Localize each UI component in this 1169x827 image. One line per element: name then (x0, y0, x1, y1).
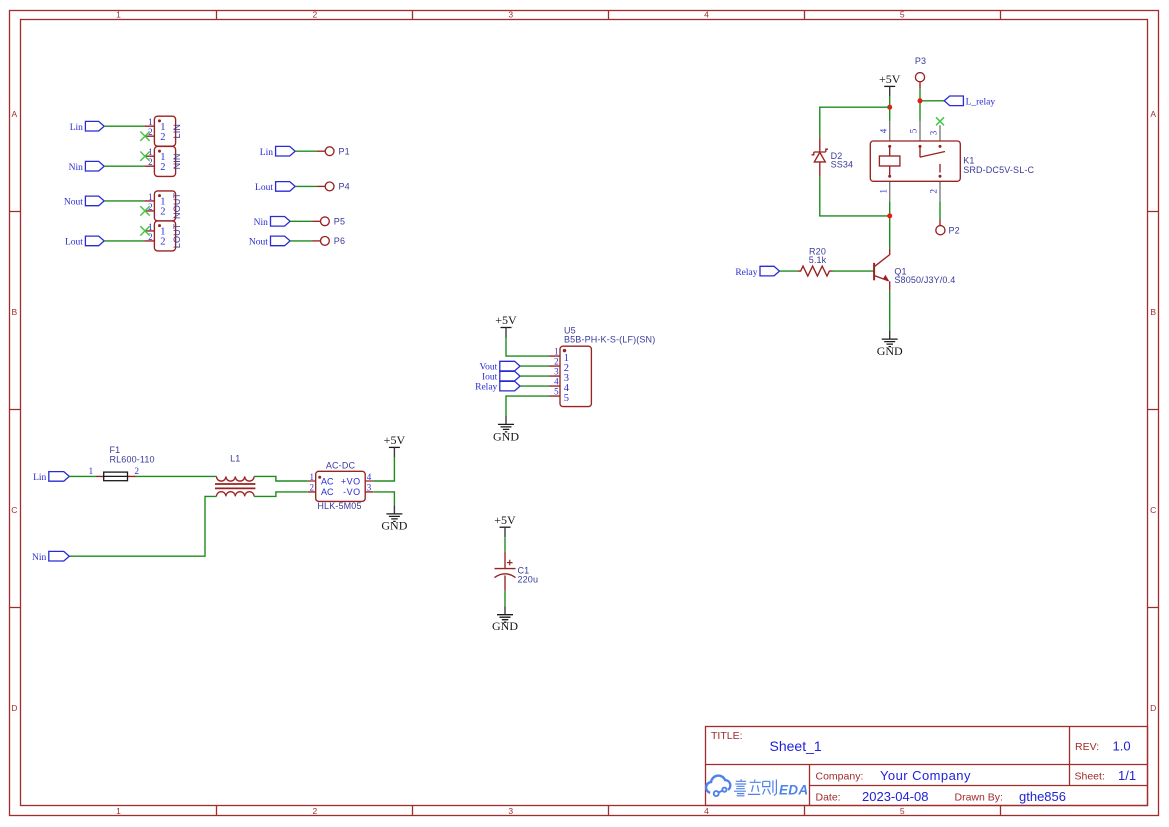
wire L1 bottom to AC pin2 (254, 492, 308, 497)
svg-text:1: 1 (148, 192, 153, 202)
svg-text:4: 4 (367, 472, 372, 482)
svg-text:GND: GND (381, 518, 407, 532)
net flag Lin (70, 121, 105, 132)
svg-text:Iout: Iout (482, 373, 498, 383)
svg-text:GND: GND (493, 429, 519, 443)
AC-DC module U HLK-5M05 (308, 461, 374, 512)
svg-text:2: 2 (134, 466, 139, 476)
svg-text:+5V: +5V (495, 313, 517, 327)
wire -VO to GND (373, 492, 394, 506)
svg-text:Relay: Relay (475, 383, 497, 393)
svg-text:2: 2 (148, 232, 153, 242)
svg-text:5: 5 (909, 128, 919, 133)
wire C1 to GND (504, 591, 506, 606)
connector LOUT (144, 221, 182, 251)
svg-text:4: 4 (704, 9, 709, 19)
pin P1 (317, 146, 350, 156)
svg-text:Nout: Nout (64, 198, 83, 208)
svg-text:5: 5 (900, 806, 905, 816)
inductor L1 (common mode choke) (215, 454, 255, 497)
ground GND (Q1) (877, 331, 903, 358)
junction on +5V net (887, 105, 892, 110)
svg-text:S8050/J3Y/0.4: S8050/J3Y/0.4 (894, 275, 955, 285)
wire node to L_relay (920, 100, 944, 102)
junction collector node (887, 213, 892, 218)
net flag Nin (AC input) (32, 551, 69, 563)
ground GND (U5) (493, 416, 519, 443)
svg-text:1: 1 (310, 472, 315, 482)
svg-text:HLK-5M05: HLK-5M05 (317, 501, 361, 511)
net flag Iout (482, 371, 520, 382)
wire K1 pin1 to Q1 collector (889, 201, 891, 248)
svg-text:AC-DC: AC-DC (326, 461, 356, 471)
svg-text:4: 4 (554, 377, 559, 387)
svg-text:L1: L1 (230, 454, 240, 464)
svg-text:3: 3 (508, 9, 513, 19)
svg-text:Nin: Nin (69, 163, 84, 173)
net flag Nin (69, 161, 105, 172)
pin P5 (312, 217, 345, 227)
svg-text:P5: P5 (334, 217, 345, 227)
svg-text:2: 2 (313, 9, 318, 19)
svg-text:gthe856: gthe856 (1019, 789, 1066, 804)
wire +5V down to pin4 (889, 96, 891, 121)
wire K1 pin2 to P2 (939, 201, 941, 219)
svg-text:+5V: +5V (879, 72, 901, 86)
svg-text:B5B-PH-K-S-(LF)(SN): B5B-PH-K-S-(LF)(SN) (564, 335, 655, 345)
svg-text:5: 5 (554, 387, 559, 397)
wire Lin to F1 (69, 475, 95, 477)
svg-text:Sheet_1: Sheet_1 (770, 738, 822, 754)
svg-text:1/1: 1/1 (1118, 768, 1136, 783)
svg-text:Your Company: Your Company (880, 768, 971, 783)
svg-text:TITLE:: TITLE: (711, 730, 743, 742)
svg-text:2: 2 (310, 483, 315, 493)
no-connect X on NOUT pin2 (140, 206, 149, 215)
wire Q1 emitter to GND (889, 291, 891, 331)
svg-text:2023-04-08: 2023-04-08 (862, 789, 929, 804)
relay K1 (870, 121, 1034, 201)
diode D2 (812, 137, 854, 176)
svg-text:REV:: REV: (1075, 741, 1099, 753)
svg-text:2: 2 (148, 157, 153, 167)
wire +VO to +5V (373, 457, 394, 481)
wire pin5 to GND (506, 396, 549, 416)
pin P3 (915, 56, 926, 88)
svg-text:Company:: Company: (816, 771, 864, 783)
wire F1 to L1 (136, 475, 217, 477)
svg-text:4: 4 (878, 128, 888, 133)
svg-text:Nout: Nout (249, 238, 268, 248)
connector LIN (144, 116, 182, 146)
wire Nout to P6 (290, 240, 312, 242)
pin P6 (312, 236, 345, 246)
pin P2 (936, 220, 960, 236)
wire +5V to D2 top (820, 107, 890, 137)
svg-text:2: 2 (554, 357, 559, 367)
svg-text:Lin: Lin (70, 123, 83, 133)
svg-text:Lout: Lout (65, 238, 83, 248)
svg-text:P6: P6 (334, 236, 345, 246)
svg-text:2: 2 (313, 806, 318, 816)
wire +5V to C1 (504, 537, 506, 552)
svg-text:4: 4 (704, 806, 709, 816)
net flag Lout (65, 236, 104, 247)
connector NOUT (144, 191, 182, 221)
svg-text:3: 3 (508, 806, 513, 816)
wire Nin to NIN pin2 (104, 165, 144, 167)
svg-text:SRD-DC5V-SL-C: SRD-DC5V-SL-C (963, 165, 1034, 175)
svg-text:SS34: SS34 (831, 160, 854, 170)
no-connect X on K1 pin3 (936, 117, 944, 125)
wire Vout to pin2 (520, 365, 549, 367)
svg-text:Drawn By:: Drawn By: (955, 792, 1003, 804)
svg-text:D: D (11, 703, 17, 713)
wire Relay to pin4 (520, 385, 549, 387)
svg-text:B: B (11, 307, 17, 317)
svg-text:1: 1 (116, 9, 121, 19)
svg-text:3: 3 (367, 483, 372, 493)
svg-text:P3: P3 (915, 56, 926, 66)
svg-text:AC: AC (321, 487, 334, 497)
ground GND (C1) (492, 606, 518, 633)
no-connect X on LIN pin2 (140, 132, 149, 141)
svg-text:2: 2 (160, 132, 165, 143)
net flag Lin (AC input) (33, 472, 69, 484)
svg-text:P1: P1 (339, 146, 350, 156)
junction on P3 net (918, 98, 923, 103)
svg-text:5: 5 (900, 9, 905, 19)
wire Lout to LOUT pin2 (104, 240, 144, 242)
svg-text:LOUT: LOUT (172, 223, 182, 248)
svg-text:5.1k: 5.1k (809, 255, 827, 265)
net flag Lin (P1 row) (260, 146, 295, 157)
svg-text:5: 5 (564, 393, 569, 404)
net flag Nin (P5 row) (254, 217, 290, 228)
svg-text:2: 2 (160, 207, 165, 218)
svg-text:P4: P4 (339, 182, 350, 192)
svg-text:Lout: Lout (255, 183, 273, 193)
net flag Nout (P6 row) (249, 236, 290, 247)
wire Lout to P4 (295, 185, 317, 187)
svg-text:3: 3 (554, 367, 559, 377)
connector U5 (549, 326, 655, 407)
power flag +5V (AC-DC) (384, 433, 406, 457)
wire L1 top to AC pin1 (254, 476, 308, 481)
no-connect X on NIN pin1 (140, 152, 149, 161)
svg-text:1: 1 (89, 466, 94, 476)
svg-text:220u: 220u (518, 575, 539, 585)
wire Nin to P5 (290, 220, 312, 222)
svg-text:Lin: Lin (33, 473, 46, 483)
svg-text:1: 1 (878, 189, 888, 194)
svg-text:EDA: EDA (779, 783, 808, 798)
svg-text:2: 2 (160, 162, 165, 173)
power flag +5V (relay) (879, 72, 901, 97)
title block (706, 727, 1148, 806)
power flag +5V (U5) (495, 313, 517, 337)
connector NIN (144, 146, 182, 176)
svg-text:-VO: -VO (343, 487, 361, 497)
svg-text:1: 1 (554, 347, 559, 357)
svg-text:2: 2 (929, 189, 939, 194)
svg-text:RL600-110: RL600-110 (110, 454, 155, 464)
wire Nin to L1 bottom (69, 496, 216, 556)
wire Nout to NOUT pin1 (104, 200, 144, 202)
wire Lin to P1 (295, 150, 317, 152)
wire P3 down to pin5 (919, 88, 921, 121)
svg-text:Nin: Nin (32, 553, 47, 563)
wire Lin to LIN pin1 (104, 125, 144, 127)
net flag Relay (Q1 base) (735, 266, 779, 278)
svg-text:+VO: +VO (341, 476, 361, 486)
net flag L_relay (944, 96, 995, 107)
svg-text:Sheet:: Sheet: (1075, 771, 1105, 783)
svg-text:NIN: NIN (172, 153, 182, 169)
svg-text:Nin: Nin (254, 218, 269, 228)
transistor Q1 (874, 249, 955, 291)
capacitor C1 (495, 552, 539, 591)
logo JLCEDA (706, 776, 808, 798)
wire R20 to Q1 base (832, 270, 874, 272)
svg-text:Lin: Lin (260, 148, 273, 158)
wire +5V to U5 pin1 (506, 338, 549, 357)
svg-text:LIN: LIN (172, 124, 182, 138)
svg-text:Vout: Vout (480, 363, 498, 373)
svg-text:L_relay: L_relay (966, 97, 996, 107)
net flag Vout (480, 361, 521, 372)
svg-text:B: B (1150, 307, 1156, 317)
wire Relay flag to R20 (780, 270, 798, 272)
svg-text:A: A (11, 109, 17, 119)
wire Iout to pin3 (520, 375, 549, 377)
svg-text:1.0: 1.0 (1113, 739, 1131, 754)
svg-text:C: C (11, 505, 17, 515)
svg-text:A: A (1150, 109, 1156, 119)
no-connect X on LOUT pin1 (140, 226, 149, 235)
svg-text:GND: GND (492, 619, 518, 633)
resistor R20 (798, 246, 833, 276)
svg-text:GND: GND (877, 344, 903, 358)
svg-text:+5V: +5V (384, 433, 406, 447)
svg-text:2: 2 (160, 237, 165, 248)
ground GND (AC-DC) (381, 505, 407, 532)
svg-text:1: 1 (148, 117, 153, 127)
svg-text:D: D (1150, 703, 1156, 713)
power flag +5V (C1) (494, 513, 516, 537)
svg-text:C: C (1150, 505, 1156, 515)
wire D2 bottom to node (820, 177, 890, 216)
svg-text:Date:: Date: (816, 792, 841, 804)
svg-text:NOUT: NOUT (172, 193, 182, 219)
fuse F1 (89, 445, 155, 481)
svg-text:P2: P2 (949, 226, 960, 236)
svg-text:AC: AC (321, 476, 334, 486)
svg-text:3: 3 (929, 130, 939, 135)
net flag Nout (64, 196, 104, 207)
svg-text:Relay: Relay (735, 268, 757, 278)
pin P4 (317, 182, 350, 192)
net flag Relay (U5) (475, 381, 520, 392)
svg-text:1: 1 (116, 806, 121, 816)
svg-text:+5V: +5V (494, 513, 516, 527)
net flag Lout (P4 row) (255, 182, 295, 193)
